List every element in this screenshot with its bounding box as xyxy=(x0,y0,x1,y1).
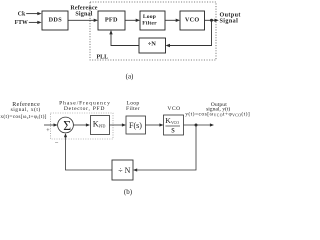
block VCO xyxy=(180,11,205,30)
block Loop Filter xyxy=(140,11,165,30)
svg-text:Signal: Signal xyxy=(75,11,92,17)
svg-text:x(t)=cos[ωct+φi(t)]: x(t)=cos[ωct+φi(t)] xyxy=(0,113,46,120)
svg-text:−: − xyxy=(55,140,59,147)
wire DDS to PFD xyxy=(68,19,95,21)
PLL dotted boundary box xyxy=(90,2,216,60)
wire input to summer xyxy=(44,124,55,126)
block PFD xyxy=(98,11,125,30)
svg-text:Detector, PFD: Detector, PFD xyxy=(64,106,105,112)
svg-text:+: + xyxy=(46,128,50,134)
svg-text:Filter: Filter xyxy=(142,21,157,27)
svg-text:Loop: Loop xyxy=(143,14,156,20)
svg-text:VCO: VCO xyxy=(185,17,200,24)
svg-text:÷N: ÷N xyxy=(148,41,157,48)
wire feedback down from output node xyxy=(169,20,212,45)
svg-text:Ck: Ck xyxy=(18,11,26,17)
svg-text:DDS: DDS xyxy=(49,16,63,23)
wire PFD to Loop Filter xyxy=(125,19,137,21)
PFD dotted boundary (b) xyxy=(51,113,114,139)
svg-text:s: s xyxy=(171,125,175,135)
wire Loop Filter to VCO xyxy=(165,19,177,21)
wire KPD to F(s) xyxy=(110,124,124,126)
wire VCO output xyxy=(184,124,212,126)
svg-text:F(s): F(s) xyxy=(129,121,142,130)
wire F(s) to KVCO xyxy=(146,124,161,126)
wire FTW input xyxy=(29,21,39,23)
svg-text:signal, x(t): signal, x(t) xyxy=(11,106,41,113)
block KPD xyxy=(91,116,110,135)
svg-text:FTW: FTW xyxy=(15,20,28,26)
block DDS xyxy=(42,11,68,30)
summer op-amp sigma xyxy=(58,117,74,133)
svg-text:Signal: Signal xyxy=(220,18,239,24)
block F(s) xyxy=(126,116,146,134)
wire summer to KPD xyxy=(73,124,87,126)
svg-text:PLL: PLL xyxy=(97,54,109,60)
wire feedback down from output node (b) xyxy=(136,125,196,170)
svg-text:Reference: Reference xyxy=(70,5,97,11)
svg-text:VCO: VCO xyxy=(167,106,180,112)
wire VCO to output xyxy=(205,19,217,21)
svg-text:Filter: Filter xyxy=(126,106,140,112)
svg-text:(b): (b) xyxy=(124,188,133,196)
svg-text:(a): (a) xyxy=(126,73,134,81)
block divide-by-N (a) xyxy=(139,38,166,53)
wire feedback from divider to PFD xyxy=(111,33,139,46)
block divide-by-N (b) xyxy=(112,160,133,180)
svg-text:Σ: Σ xyxy=(63,118,71,133)
svg-text:÷ N: ÷ N xyxy=(118,166,130,175)
node output junction xyxy=(210,19,213,22)
block KVCO over s xyxy=(164,115,184,135)
wire Ck input xyxy=(26,13,39,15)
wire feedback from divider to summer xyxy=(66,136,113,170)
node output junction (b) xyxy=(195,124,198,127)
svg-text:PFD: PFD xyxy=(105,16,118,23)
